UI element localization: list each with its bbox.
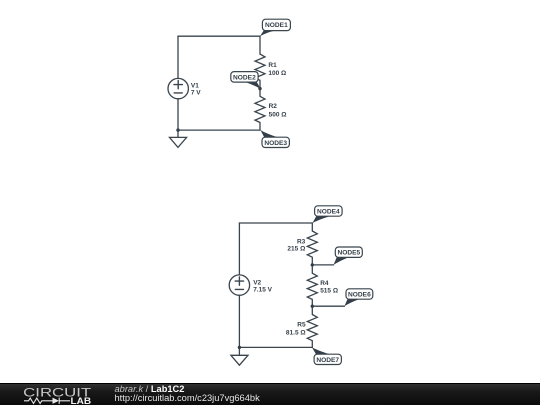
footer bar — [0, 383, 540, 405]
footer url line — [115, 394, 260, 403]
svg-text:R2: R2 — [269, 103, 278, 110]
svg-text:R4: R4 — [320, 280, 329, 287]
ground circuit2 triangle — [231, 355, 248, 365]
svg-text:NODE3: NODE3 — [264, 140, 287, 147]
wire: R3 bottom / R4 top lead — [311, 257, 313, 273]
svg-text:7 V: 7 V — [191, 90, 201, 97]
wire: NODE6 stub — [312, 305, 344, 307]
resistor R3 — [307, 231, 317, 257]
node label NODE7 — [314, 354, 341, 364]
node label NODE6 — [346, 289, 373, 299]
resistor R2 — [255, 96, 265, 122]
wire: circuit1 top horizontal — [178, 35, 260, 37]
node label tail NODE5 — [334, 257, 349, 265]
node label tail NODE1 — [260, 31, 275, 37]
junction dot NODE2 — [258, 87, 261, 90]
wire: R1 top lead — [259, 36, 261, 54]
wire: NODE5 stub — [312, 264, 333, 266]
junction dot circuit2 ground — [238, 346, 241, 349]
wire: circuit1 left vertical (top of V1) — [177, 36, 179, 78]
ground circuit1 stub — [177, 130, 179, 137]
svg-text:V2: V2 — [253, 279, 261, 286]
svg-text:NODE5: NODE5 — [337, 250, 360, 257]
svg-text:R3: R3 — [297, 239, 306, 246]
logo resistor squiggle — [24, 398, 53, 403]
node label tail NODE4 — [313, 216, 330, 223]
svg-text:NODE4: NODE4 — [317, 209, 340, 216]
svg-text:500 Ω: 500 Ω — [269, 111, 287, 118]
wire: R4 bottom / R5 top lead — [311, 299, 313, 314]
wire: R2 bottom lead — [259, 123, 261, 131]
wire: circuit1 left vertical (bottom of V1) — [177, 99, 179, 130]
svg-text:NODE7: NODE7 — [316, 357, 339, 364]
wire: circuit2 top horizontal — [239, 222, 312, 224]
junction dot circuit1 ground — [176, 128, 179, 131]
node label tail NODE3 — [261, 130, 278, 137]
ground circuit2 stub — [238, 347, 240, 355]
voltage source V2 — [229, 275, 249, 295]
resistor R4 — [307, 273, 317, 299]
footer credit line — [115, 385, 185, 394]
node label tail NODE2 — [246, 82, 261, 89]
wire: circuit2 left vertical (bottom of V2) — [238, 295, 240, 347]
wire: circuit1 bottom horizontal — [178, 129, 260, 131]
wire: R3 top lead — [311, 223, 313, 231]
node label tail NODE7 — [312, 347, 330, 354]
logo diode — [53, 398, 60, 404]
svg-text:NODE6: NODE6 — [348, 292, 371, 299]
svg-text:215 Ω: 215 Ω — [287, 246, 305, 253]
wire: R5 bottom lead — [311, 341, 313, 348]
svg-text:515 Ω: 515 Ω — [320, 288, 338, 295]
node label NODE1 — [262, 19, 290, 30]
wire: circuit2 left vertical (top of V2) — [238, 223, 240, 275]
svg-text:R5: R5 — [297, 322, 306, 329]
junction dot NODE6 — [311, 305, 314, 308]
node label NODE4 — [315, 206, 343, 216]
svg-text:NODE2: NODE2 — [233, 74, 256, 81]
node label tail NODE6 — [344, 299, 359, 306]
ground circuit1 triangle — [170, 137, 187, 147]
svg-text:81.5 Ω: 81.5 Ω — [286, 330, 306, 337]
node label NODE5 — [335, 247, 362, 257]
resistor R1 — [255, 54, 265, 80]
wire: circuit2 bottom horizontal — [239, 346, 312, 348]
svg-text:LAB: LAB — [71, 395, 92, 405]
svg-text:R1: R1 — [268, 62, 277, 69]
wire: R1 bottom / R2 top lead — [259, 80, 261, 96]
node label NODE2 — [231, 72, 258, 83]
svg-text:7.15 V: 7.15 V — [253, 287, 272, 294]
junction dot NODE5 — [311, 263, 314, 266]
svg-text:100 Ω: 100 Ω — [268, 70, 286, 77]
resistor R5 — [307, 315, 317, 341]
voltage source V1 — [168, 78, 188, 98]
node label NODE3 — [262, 137, 289, 147]
svg-text:V1: V1 — [191, 82, 199, 89]
svg-text:NODE1: NODE1 — [265, 22, 288, 29]
